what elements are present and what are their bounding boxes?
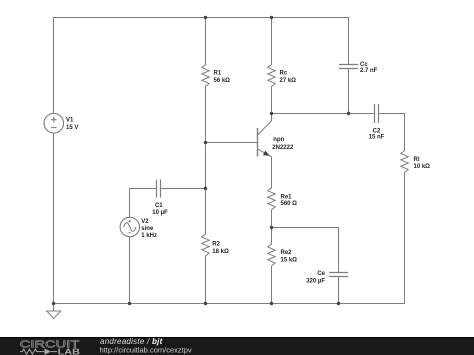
wire Cc top lead	[348, 18, 350, 65]
voltage source V2 (sine)	[120, 217, 139, 236]
wire right column upper (Rl top lead)	[404, 114, 406, 151]
wire mid rail right (C2 to right column)	[379, 113, 405, 115]
wire Ce top lead	[338, 228, 340, 273]
resistor R1	[202, 65, 209, 87]
svg-text:10 kΩ: 10 kΩ	[414, 164, 431, 170]
ground	[47, 304, 61, 319]
svg-text:15 V: 15 V	[66, 125, 78, 131]
wire Rc bottom lead	[271, 87, 273, 114]
wire V2 top lead	[129, 189, 131, 218]
wire R2 bottom lead	[205, 256, 207, 304]
footer bar	[0, 337, 474, 355]
svg-text:Ce: Ce	[317, 271, 325, 277]
wire Re2 bottom lead	[271, 266, 273, 304]
svg-text:C1: C1	[155, 203, 163, 209]
node emitter / Re1 / Ce	[270, 226, 273, 229]
wire base column mid (R1 bottom to R2 top through base and C1 nodes)	[205, 87, 207, 235]
capacitor Cc	[339, 65, 358, 69]
svg-text:LAB: LAB	[58, 347, 81, 355]
node ground / bottom rail	[52, 302, 55, 305]
wire left rail lower (V1 bottom lead)	[53, 133, 55, 304]
wire emitter lead to Re1	[271, 157, 273, 188]
wire Cc bottom lead	[348, 69, 350, 114]
svg-text:R2: R2	[212, 242, 220, 248]
wire Re1 bottom lead	[271, 210, 273, 244]
node Ce / bottom rail	[337, 302, 340, 305]
svg-text:560 Ω: 560 Ω	[281, 201, 298, 207]
wire C1 right lead	[161, 188, 206, 190]
node C1 / divider column	[204, 187, 207, 190]
svg-text:15 kΩ: 15 kΩ	[281, 257, 298, 263]
resistor Re1	[268, 188, 275, 210]
wire right column lower (Rl bottom lead)	[404, 173, 406, 304]
CircuitLab logo resistor squiggle and arrow	[20, 349, 57, 355]
node top rail / R1	[204, 16, 207, 19]
capacitor C2	[375, 104, 379, 123]
node R2 / bottom rail	[204, 302, 207, 305]
resistor Rc	[268, 65, 275, 87]
svg-text:18 kΩ: 18 kΩ	[212, 249, 229, 255]
wire mid rail left (collector node to C2)	[272, 113, 375, 115]
wire base wire (node to transistor base)	[206, 142, 258, 144]
svg-text:npn: npn	[273, 137, 284, 143]
svg-text:Re2: Re2	[281, 250, 293, 256]
svg-text:sine: sine	[141, 226, 154, 232]
node Cc / mid rail	[347, 112, 350, 115]
svg-text:http://circuitlab.com/cexztpv: http://circuitlab.com/cexztpv	[100, 346, 192, 355]
wire bottom rail	[54, 303, 405, 305]
wire Ce bottom lead	[338, 277, 340, 304]
capacitor C1	[157, 180, 161, 198]
svg-text:15 nF: 15 nF	[369, 134, 385, 140]
svg-text:2.7 nF: 2.7 nF	[360, 68, 378, 74]
transistor Q1 npn 2N2222	[258, 114, 272, 157]
svg-text:27 kΩ: 27 kΩ	[280, 78, 297, 84]
node collector / mid rail	[270, 112, 273, 115]
svg-text:56 kΩ: 56 kΩ	[214, 78, 231, 84]
svg-text:Rl: Rl	[414, 157, 420, 163]
svg-text:V1: V1	[66, 117, 74, 123]
wire C1 left lead	[130, 188, 157, 190]
resistor Re2	[268, 244, 275, 266]
wire top rail	[54, 17, 349, 19]
svg-text:1 kHz: 1 kHz	[141, 233, 157, 239]
wire left rail upper (V1 top lead)	[53, 18, 55, 114]
svg-text:R1: R1	[214, 71, 222, 77]
node Re2 / bottom rail	[270, 302, 273, 305]
svg-text:10 µF: 10 µF	[152, 210, 168, 216]
wire emitter node to Ce	[272, 227, 339, 229]
wire base column upper (R1 top lead)	[205, 18, 207, 65]
svg-text:V2: V2	[141, 219, 149, 225]
node base	[204, 141, 207, 144]
junction node dots	[52, 16, 350, 305]
node V2 / bottom rail	[128, 302, 131, 305]
voltage source V1	[44, 113, 64, 133]
resistor R2	[202, 234, 209, 256]
svg-text:2N2222: 2N2222	[272, 145, 294, 151]
node top rail / Rc	[270, 16, 273, 19]
wire Rc top lead	[271, 18, 273, 65]
svg-text:320 µF: 320 µF	[306, 278, 325, 284]
svg-text:Rc: Rc	[280, 71, 288, 77]
svg-text:Re1: Re1	[281, 194, 293, 200]
capacitor Ce	[329, 273, 348, 277]
resistor Rl	[401, 151, 408, 173]
wire V2 bottom lead	[129, 237, 131, 304]
